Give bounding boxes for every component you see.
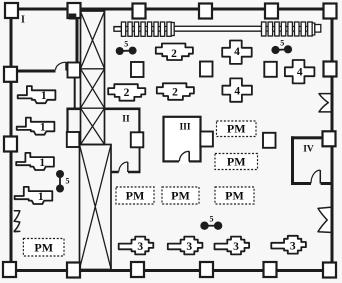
conveyor shaft — [174, 26, 261, 31]
machine 2 labels — [124, 48, 179, 99]
svg-text:IV: IV — [303, 145, 314, 155]
roller conveyor left bars — [121, 22, 171, 36]
svg-text:3: 3 — [290, 240, 296, 252]
svg-text:5: 5 — [66, 177, 70, 186]
wall right — [331, 8, 334, 273]
svg-text:3: 3 — [186, 241, 192, 253]
room I right wall — [76, 11, 79, 63]
svg-text:1: 1 — [39, 157, 45, 169]
machine 2 a — [156, 44, 193, 61]
column bottom 3 — [131, 262, 144, 277]
svg-text:2: 2 — [172, 86, 178, 98]
svg-text:PM: PM — [34, 241, 53, 255]
roller conveyor right stub — [315, 25, 321, 33]
svg-text:PM: PM — [227, 122, 246, 136]
room II door arc — [119, 162, 128, 172]
room II top wall right segment — [105, 108, 141, 111]
column bottom 2 — [67, 263, 80, 278]
PM box 6 — [23, 239, 64, 257]
cross brace cell 3 — [81, 108, 105, 144]
crane trolley 5 top-left — [116, 39, 137, 55]
conveyor shaft full — [114, 27, 317, 32]
crane trolley 5 left-middle vertical — [56, 170, 70, 193]
crane bay wide strip — [80, 145, 112, 270]
room IV top wall — [291, 136, 333, 139]
machine 3 a — [119, 237, 154, 255]
room II lower right wall — [139, 148, 141, 172]
column bottom 6 corner — [323, 263, 336, 278]
room II right stub wall — [138, 110, 140, 132]
machine 1 d — [15, 187, 53, 204]
PM box 1 — [217, 121, 257, 137]
interior column A1 — [68, 63, 81, 78]
crane bay narrow strip — [81, 11, 105, 145]
room II door leaf — [127, 162, 129, 172]
interior column A4 — [264, 62, 277, 77]
svg-text:PM: PM — [225, 189, 244, 203]
svg-text:5: 5 — [280, 38, 284, 47]
wall left — [10, 8, 13, 273]
machine 3 c — [215, 237, 250, 255]
svg-text:PM: PM — [227, 155, 246, 169]
crane trolley 5 bottom — [200, 214, 222, 230]
svg-text:1: 1 — [38, 191, 44, 203]
cross brace cell 2 — [81, 69, 105, 108]
svg-text:II: II — [122, 115, 130, 125]
interior column B3 — [200, 132, 213, 147]
column top 5 — [265, 4, 278, 19]
room IV bottom wall left segment — [291, 182, 311, 185]
roller conveyor left stub — [114, 27, 121, 31]
crane trolley 5 top-right — [271, 38, 292, 54]
machine 3 d — [271, 236, 306, 254]
room I bottom wall — [12, 70, 56, 73]
room III door leaf — [188, 151, 190, 161]
column right wall 1 — [324, 62, 337, 77]
machine 4 c — [285, 60, 315, 83]
svg-text:PM: PM — [171, 189, 190, 203]
svg-text:1: 1 — [40, 122, 46, 134]
interior column A2 — [131, 62, 144, 77]
svg-text:1: 1 — [41, 90, 47, 102]
svg-text:3: 3 — [233, 241, 239, 253]
column bottom 5 — [264, 262, 277, 277]
column top 3 — [133, 4, 146, 19]
room II top wall left segment — [66, 108, 80, 111]
room IV door leaf — [319, 170, 321, 183]
svg-text:4: 4 — [234, 86, 240, 98]
double door left wall — [14, 211, 20, 232]
room I door arc — [56, 62, 66, 70]
column bottom 4 — [200, 262, 213, 277]
room I bottom wall right stub — [67, 70, 70, 73]
interior column A3 — [200, 62, 213, 77]
room IV door arc — [311, 170, 320, 183]
machine 2 b — [108, 84, 145, 101]
interior column B2 — [131, 132, 144, 147]
room III — [164, 117, 201, 162]
room I right wall lower segment — [74, 77, 76, 110]
svg-text:I: I — [21, 15, 25, 26]
machine 3 b — [168, 237, 203, 255]
room II left stub wall — [66, 110, 68, 132]
wall stub under top column 2 — [69, 14, 77, 20]
cross brace wide — [80, 145, 112, 270]
machine 1 a — [18, 86, 56, 103]
svg-text:III: III — [179, 123, 190, 133]
machine 3 labels — [137, 240, 296, 253]
crane bay divider 1 — [81, 68, 105, 70]
room I door leaf — [65, 62, 67, 71]
PM box 5 — [215, 187, 254, 204]
interior column B1 — [67, 132, 80, 147]
svg-text:5: 5 — [210, 214, 214, 223]
svg-text:PM: PM — [126, 189, 145, 203]
PM box 3 — [116, 187, 154, 204]
svg-text:2: 2 — [171, 48, 177, 60]
double door right wall y95 — [319, 94, 331, 112]
column top 2 — [68, 3, 81, 18]
column left wall 1 — [4, 67, 17, 82]
roller conveyor right bars — [262, 22, 313, 36]
machine 2 c — [157, 83, 194, 100]
column top 4 — [199, 4, 212, 19]
crane bay divider 2 — [81, 107, 105, 109]
column top 6 corner — [324, 4, 337, 19]
wall top — [10, 8, 334, 11]
roller conveyor right end bar — [312, 23, 315, 35]
roller conveyor end bar — [171, 23, 174, 36]
room III door arc — [179, 151, 189, 161]
column top 1 — [5, 3, 18, 18]
wall bottom — [9, 269, 334, 272]
machine 4 a — [222, 41, 252, 64]
machine 1 labels — [38, 90, 47, 203]
column bottom 1 corner — [3, 262, 16, 277]
room IV left wall — [291, 136, 294, 185]
svg-text:2: 2 — [124, 87, 130, 99]
svg-text:4: 4 — [234, 46, 240, 58]
cross brace cell 1 — [81, 12, 105, 69]
column right wall 2 — [323, 131, 336, 146]
machine 1 b — [17, 118, 55, 135]
machine 4 labels — [234, 46, 303, 97]
column left wall 2 — [4, 137, 17, 152]
machine 4 b — [222, 78, 252, 101]
svg-text:3: 3 — [137, 241, 143, 253]
PM box 2 — [215, 154, 258, 170]
double door right wall y207 — [318, 207, 331, 232]
svg-text:4: 4 — [297, 67, 303, 79]
PM box 4 — [162, 187, 199, 204]
room II bottom wall — [111, 171, 141, 173]
machine 1 c — [16, 153, 54, 170]
room IV bottom wall right segment — [321, 182, 333, 185]
svg-text:5: 5 — [124, 39, 128, 48]
interior column B4 — [263, 133, 276, 148]
room III door gap — [179, 160, 189, 164]
